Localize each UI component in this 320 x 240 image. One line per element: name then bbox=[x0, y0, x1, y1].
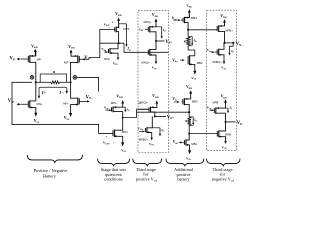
brace: third stage for negative Vout bbox=[207, 159, 241, 166]
svg-text:−: − bbox=[109, 26, 111, 30]
current source I+ and I- pair bbox=[38, 87, 68, 98]
label V_GSN across MN1 bbox=[103, 135, 115, 146]
label V_SGP across MP2 bbox=[104, 21, 114, 30]
wire V_P+ output of stage 2 bbox=[89, 43, 100, 57]
caption: additional positive battery bbox=[174, 167, 194, 182]
svg-text:MN2: MN2 bbox=[104, 57, 110, 61]
transistor MN+ (stage 1 left NMOS) bbox=[21, 82, 43, 110]
current source I_Q (stage 2 lower) bbox=[123, 107, 130, 112]
transistor MNQ+ (quiescent NMOS) bbox=[141, 41, 156, 64]
svg-text:VDD: VDD bbox=[116, 94, 123, 99]
svg-text:IB−: IB− bbox=[193, 118, 197, 123]
node B (right battery node) bbox=[73, 76, 77, 80]
svg-text:+: + bbox=[112, 21, 114, 25]
svg-text:MP+: MP+ bbox=[64, 60, 70, 64]
svg-text:R: R bbox=[53, 70, 56, 74]
transistor MPB+ (follower PMOS upper) bbox=[217, 23, 233, 43]
transistor MN2 (diode NMOS) bbox=[104, 43, 118, 61]
label V_thn (gate of MN2) bbox=[101, 47, 108, 53]
ground VSS (under MNBO+) bbox=[149, 135, 155, 147]
bias wire to MNQ+ gate bbox=[124, 43, 169, 52]
svg-text:positive Vout: positive Vout bbox=[136, 176, 158, 182]
svg-text:VSS: VSS bbox=[222, 145, 228, 150]
svg-text:MPQ+: MPQ+ bbox=[144, 20, 152, 24]
svg-text:VBP: VBP bbox=[104, 106, 110, 111]
svg-text:VDD: VDD bbox=[68, 45, 75, 50]
ground VSS (under MNQ+) bbox=[152, 58, 158, 71]
transistor MP1 (bias PMOS stage 2) bbox=[111, 101, 123, 117]
svg-text:I−: I− bbox=[58, 90, 64, 95]
net label V_th+ (gate of MB2) bbox=[172, 58, 185, 63]
junction dot right node bbox=[70, 81, 72, 83]
transistor MPO+ (output PMOS for positive swing) bbox=[138, 101, 157, 117]
svg-text:Positive / Negative: Positive / Negative bbox=[34, 168, 68, 173]
svg-text:IB: IB bbox=[230, 49, 234, 54]
svg-text:IB+: IB+ bbox=[193, 38, 197, 43]
svg-text:VP+: VP+ bbox=[165, 40, 172, 45]
svg-text:MNBO+: MNBO+ bbox=[139, 137, 149, 141]
svg-text:MN1: MN1 bbox=[122, 130, 128, 134]
net label V_P+ (gate terminal of MP+) bbox=[84, 56, 91, 61]
node and net label V_O+ (stage 3 output) bbox=[154, 115, 175, 120]
current source I_Q- (stage 5 lower) bbox=[226, 106, 233, 114]
svg-text:MN+: MN+ bbox=[37, 102, 43, 106]
svg-text:VGS+: VGS+ bbox=[138, 126, 144, 131]
svg-text:VSS: VSS bbox=[221, 66, 227, 71]
transistor MN1 (NMOS driven by battery loop) bbox=[113, 118, 128, 140]
net label V_N- (gate terminal of MN-) bbox=[86, 95, 93, 100]
svg-text:IQ: IQ bbox=[126, 107, 130, 112]
svg-text:VP−: VP− bbox=[237, 121, 244, 126]
node stage 2 output bbox=[122, 116, 124, 118]
svg-text:Battery: Battery bbox=[43, 174, 57, 179]
label V_GS (gate of MNBO+) bbox=[138, 126, 146, 132]
net label V_N+ (gate terminal of MN+) bbox=[8, 99, 21, 106]
node battery- bottom and wire to MNB- gate bbox=[188, 126, 217, 135]
power VDD (stage 3 lower) bbox=[152, 94, 159, 108]
current source I_Q (stage 2 upper) bbox=[119, 24, 131, 52]
brace: third stage for positive Vout bbox=[133, 159, 162, 166]
svg-text:VDD: VDD bbox=[221, 95, 228, 100]
power VDD (stage 2 upper) bbox=[115, 12, 122, 26]
svg-text:IQ: IQ bbox=[162, 28, 166, 33]
svg-text:VN−: VN− bbox=[236, 42, 244, 47]
net label V_in+ (gate of MB4) bbox=[172, 16, 181, 21]
svg-text:conditions: conditions bbox=[104, 177, 123, 182]
svg-text:VDD: VDD bbox=[152, 13, 159, 18]
svg-text:I+: I+ bbox=[41, 90, 47, 95]
net label V_BP (gate of MPQ+) bbox=[139, 28, 143, 33]
transistor MP+ (stage 1 right PMOS) bbox=[64, 52, 88, 82]
svg-text:VGSN: VGSN bbox=[103, 141, 110, 146]
wire MP2 diode loop gate-to-drain bbox=[100, 29, 124, 44]
caption: stage that sets quiescent conditions bbox=[101, 167, 127, 182]
svg-text:MNBQ+: MNBQ+ bbox=[213, 60, 223, 64]
transistor MNB+ (battery NMOS stage 5) bbox=[213, 43, 225, 64]
svg-text:VSS: VSS bbox=[191, 76, 197, 81]
ground VSS (under MB2) bbox=[191, 68, 197, 81]
ground VSS (stage 5 upper) bbox=[221, 58, 227, 70]
ground VSS (under MN-) bbox=[64, 108, 72, 121]
transistor MPQ+ (quiescent PMOS) bbox=[144, 20, 156, 41]
transistor MB1 (battery NMOS lower) bbox=[183, 134, 197, 148]
svg-text:MNB-: MNB- bbox=[225, 133, 232, 137]
caption: third stage for negative Vout bbox=[212, 167, 234, 182]
svg-text:VN+: VN+ bbox=[8, 99, 15, 104]
ground VSS (under MN1) bbox=[121, 139, 127, 153]
node stage 5 upper and net label V_N- bbox=[223, 42, 243, 47]
transistor MB2 (battery NMOS upper) bbox=[188, 55, 203, 67]
ground VSS (stage 5 lower) bbox=[222, 139, 228, 150]
transistor MN- (stage 1 right NMOS) bbox=[63, 82, 90, 108]
svg-text:MB1: MB1 bbox=[191, 142, 197, 146]
svg-text:IQ: IQ bbox=[126, 47, 130, 52]
svg-text:MP1: MP1 bbox=[111, 101, 117, 105]
svg-text:MN-: MN- bbox=[63, 102, 68, 106]
transistor MPB- (follower PMOS lower) bbox=[212, 101, 225, 122]
brace: positive/negative battery bbox=[27, 155, 82, 163]
svg-text:MPB+: MPB+ bbox=[225, 28, 233, 32]
transistor MB3 (battery PMOS lower) bbox=[182, 98, 198, 113]
node and net label V_P+ (stage 3) bbox=[155, 40, 172, 45]
power VDD (stage 1 left) bbox=[31, 44, 38, 56]
svg-text:MB3: MB3 bbox=[192, 99, 198, 103]
svg-text:MPB-: MPB- bbox=[212, 101, 219, 105]
svg-text:Vthn: Vthn bbox=[101, 47, 107, 52]
resistor R (floating battery resistor) bbox=[36, 70, 71, 84]
current source I_B (stage 3 lower) bbox=[152, 128, 164, 137]
wire stage 2 output to third stages bbox=[123, 109, 191, 117]
svg-text:VSS: VSS bbox=[152, 66, 158, 71]
caption: Positive / Negative Battery bbox=[34, 168, 68, 179]
svg-text:VDD: VDD bbox=[115, 12, 122, 17]
resistor R (battery-) bbox=[185, 112, 191, 125]
svg-text:MB4: MB4 bbox=[191, 16, 197, 20]
svg-text:Vth−: Vth− bbox=[173, 140, 179, 145]
resistor R (battery+) bbox=[184, 30, 190, 46]
svg-text:VSS: VSS bbox=[113, 61, 119, 66]
power VDD (stage 5 lower) bbox=[221, 95, 228, 108]
wire R bottom to MB2 drain bbox=[188, 46, 195, 56]
svg-text:VDD: VDD bbox=[31, 44, 38, 49]
current source I_B- (parallel with R lower) bbox=[189, 117, 197, 126]
dashed box: third stage for negative Vout bbox=[207, 10, 237, 150]
net label V_BP (gate of MPB-) bbox=[207, 106, 215, 112]
svg-text:VP−: VP− bbox=[10, 57, 17, 62]
net label V_P- (gate terminal of MP-) bbox=[10, 57, 21, 62]
net label V_th- (gate of MB1) bbox=[173, 140, 183, 145]
svg-text:R: R bbox=[185, 119, 187, 123]
svg-text:MNQ+: MNQ+ bbox=[141, 60, 150, 64]
feedback wire from node A to MN1 gate bbox=[12, 82, 113, 133]
junction dot left node bbox=[35, 81, 37, 83]
power VDD (stage 3 upper) bbox=[152, 13, 159, 26]
transistor MP- (stage 1 left PMOS) bbox=[21, 51, 42, 82]
svg-text:IB: IB bbox=[160, 128, 164, 133]
svg-text:MB2: MB2 bbox=[197, 61, 203, 65]
net label V_th+ (gate of MNB+) bbox=[207, 48, 215, 53]
svg-text:VSS: VSS bbox=[186, 156, 192, 161]
svg-text:Vin−: Vin− bbox=[172, 97, 178, 102]
power VDD (stage 5 upper) bbox=[220, 14, 227, 25]
transistor MNB- (NMOS stage 5 lower) bbox=[217, 122, 232, 139]
current source I_B+ (parallel with R) bbox=[188, 37, 197, 46]
svg-text:negative Vout: negative Vout bbox=[212, 176, 234, 182]
ground VSS (under MN2) bbox=[113, 57, 119, 66]
svg-text:VO+: VO+ bbox=[167, 115, 175, 120]
node battery+ top and wire to MPB+ gate bbox=[187, 29, 217, 31]
brace: stage that sets quiescent conditions bbox=[98, 159, 130, 166]
svg-text:VSS: VSS bbox=[121, 148, 127, 153]
net label V_in- (gate of MB3) bbox=[172, 97, 179, 103]
svg-text:IQ: IQ bbox=[229, 106, 233, 111]
power VDD (stage 4 upper) bbox=[186, 4, 192, 17]
power VDD (stage 2 lower) bbox=[116, 94, 124, 106]
ground VSS (under MN+) bbox=[34, 110, 40, 124]
svg-text:battery: battery bbox=[177, 177, 190, 182]
svg-text:VSS: VSS bbox=[149, 142, 155, 147]
svg-text:Vth+: Vth+ bbox=[172, 58, 178, 63]
svg-text:VSS: VSS bbox=[34, 119, 40, 124]
svg-text:VDD: VDD bbox=[186, 4, 192, 9]
svg-text:+: + bbox=[106, 135, 108, 139]
current source I_Q (stage 3 upper) bbox=[156, 27, 166, 39]
transistor MNBO+ (battery NMOS stage 3) bbox=[139, 116, 153, 141]
power VDD (stage 4 lower) bbox=[186, 85, 192, 98]
svg-text:VN−: VN− bbox=[86, 95, 93, 100]
svg-text:MPO+: MPO+ bbox=[139, 101, 149, 105]
transistor MB4 (battery PMOS upper) bbox=[181, 14, 197, 30]
svg-text:VP+: VP+ bbox=[84, 56, 91, 61]
svg-text:VDD: VDD bbox=[152, 94, 159, 99]
dashed box: third stage for positive Vout bbox=[138, 11, 169, 153]
caption: third stage for positive Vout bbox=[136, 167, 158, 182]
current source I_B (stage 5 upper) bbox=[228, 43, 234, 56]
wire node B stub to stage 2 bbox=[77, 77, 99, 91]
power VDD (stage 1 right) bbox=[68, 45, 75, 56]
svg-text:MP-: MP- bbox=[37, 57, 42, 61]
node stage 5 output and net label V_P- bbox=[224, 121, 243, 126]
svg-text:VDD: VDD bbox=[186, 85, 192, 90]
svg-text:VSS: VSS bbox=[64, 116, 70, 121]
svg-text:R: R bbox=[184, 39, 186, 43]
svg-text:VBP: VBP bbox=[139, 28, 143, 33]
brace: additional positive battery bbox=[166, 159, 204, 166]
ground VSS (under MB1) bbox=[186, 148, 192, 162]
node A (left battery node) bbox=[30, 75, 34, 79]
transistor MP2 (diode-connected PMOS) bbox=[100, 24, 130, 43]
net label V_BP (gate of MP1) bbox=[104, 106, 112, 112]
svg-text:−: − bbox=[113, 140, 115, 144]
svg-text:VDD: VDD bbox=[220, 14, 227, 19]
